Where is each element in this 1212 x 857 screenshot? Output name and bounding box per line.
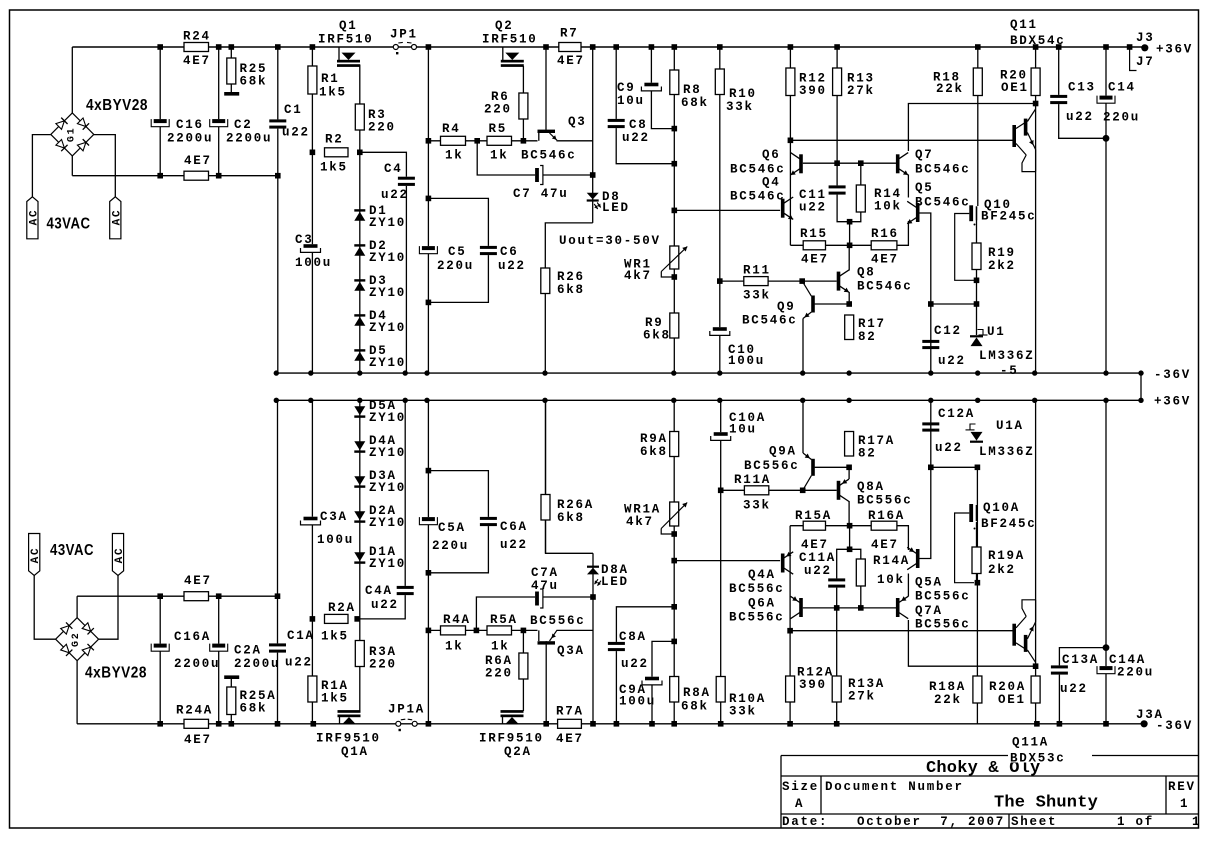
resistor R26	[541, 268, 550, 294]
wire -36V bottom rail	[77, 723, 1144, 725]
node R1A bottom junction	[311, 721, 317, 727]
resistor R25A	[227, 687, 236, 715]
svg-text:22k: 22k	[936, 82, 964, 96]
svg-text:Q8A: Q8A	[857, 480, 885, 494]
node C5A loop junctions	[426, 468, 432, 474]
node Q11 base row start	[788, 138, 794, 144]
svg-text:The Shunty: The Shunty	[994, 794, 1098, 813]
resistor R11A	[744, 486, 768, 495]
resistor R17A 82	[845, 432, 854, 457]
capacitor C4A	[397, 586, 414, 595]
wire C12A column	[930, 400, 932, 467]
svg-text:-5: -5	[1000, 364, 1019, 378]
wire R1-C3 column	[311, 47, 313, 373]
svg-text:1k: 1k	[445, 640, 464, 654]
capacitor C2A	[210, 644, 228, 652]
svg-text:2200u: 2200u	[226, 132, 272, 146]
svg-text:BC546c: BC546c	[857, 280, 913, 294]
resistor R10A	[716, 677, 725, 703]
svg-text:10k: 10k	[874, 200, 902, 214]
svg-text:R4: R4	[442, 122, 461, 136]
wire R14A column	[850, 549, 861, 608]
node C11R14 bottom	[847, 219, 853, 225]
wire Q7 emitter to Q5	[907, 175, 909, 198]
wire C8A column	[616, 607, 674, 724]
wire R19A column	[976, 522, 978, 583]
node R11 junctions	[717, 278, 723, 284]
wire bridge bottom to -rail	[76, 661, 78, 724]
resistor R19 2k2	[972, 243, 981, 270]
svg-text:C2A: C2A	[234, 644, 262, 658]
node R15A R16A junction	[847, 523, 853, 529]
svg-text:R7A: R7A	[556, 705, 584, 719]
svg-text:C8A: C8A	[619, 630, 647, 644]
svg-text:Q3A: Q3A	[557, 644, 585, 658]
svg-text:R26A: R26A	[557, 498, 594, 512]
wire Q9A base to Q8A emitter	[815, 466, 850, 468]
resistor R9A	[670, 432, 679, 457]
node mid rail dots upper	[274, 370, 279, 375]
node top rail junctions left	[157, 44, 163, 50]
wire Q6 base row	[803, 162, 897, 164]
jumper JP1A	[396, 721, 401, 726]
wire R11 row	[720, 280, 802, 282]
svg-text:68k: 68k	[681, 96, 709, 110]
svg-text:Q10A: Q10A	[983, 501, 1020, 515]
svg-text:R15: R15	[800, 227, 828, 241]
wire R20 column	[1035, 47, 1037, 104]
svg-text:220u: 220u	[437, 259, 474, 273]
svg-text:u22: u22	[285, 656, 313, 670]
svg-text:33k: 33k	[729, 705, 757, 719]
svg-text:R24A: R24A	[176, 704, 213, 718]
svg-text:Q1: Q1	[339, 19, 358, 33]
svg-text:Q4: Q4	[762, 176, 781, 190]
svg-text:2200u: 2200u	[167, 132, 213, 146]
svg-text:R16A: R16A	[868, 509, 905, 523]
svg-text:C11A: C11A	[799, 551, 836, 565]
svg-text:Q4A: Q4A	[748, 568, 776, 582]
svg-text:1 of: 1 of	[1117, 815, 1154, 829]
node right columns top	[975, 44, 981, 50]
wire D8 column	[592, 47, 594, 223]
svg-text:100u: 100u	[317, 533, 354, 547]
wire AC1 to bridge	[32, 135, 50, 197]
svg-text:October 7, 2007: October 7, 2007	[857, 815, 1005, 829]
svg-text:JP1: JP1	[390, 28, 418, 42]
svg-text:220u: 220u	[1117, 666, 1154, 680]
svg-text:-36V: -36V	[1156, 719, 1193, 733]
wire R8 column	[673, 47, 675, 373]
svg-text:Q5: Q5	[915, 181, 934, 195]
svg-text:BC546c: BC546c	[915, 163, 971, 177]
diode D4A ZY10	[354, 450, 365, 452]
svg-text:u22: u22	[938, 354, 966, 368]
svg-text:JP1A: JP1A	[388, 703, 425, 717]
svg-text:R19A: R19A	[988, 549, 1025, 563]
svg-text:IRF9510: IRF9510	[479, 732, 544, 746]
wire bottom-left feed rail	[77, 595, 277, 597]
potentiometer WR1 4k7	[670, 246, 679, 269]
connector AC bottom-left	[29, 534, 40, 576]
capacitor C1	[269, 119, 286, 128]
wire Q8A collector riser	[848, 501, 850, 526]
diode D2A ZY10	[354, 520, 365, 522]
wire R13 column	[837, 47, 850, 222]
svg-text:Uout=30-50V: Uout=30-50V	[559, 234, 661, 248]
resistor R15 4E7	[803, 241, 825, 250]
transistor Q3A BC556c	[538, 641, 556, 644]
resistor R5A	[487, 626, 512, 635]
svg-text:u22: u22	[621, 657, 649, 671]
resistor 4E7 bottom top	[184, 592, 209, 601]
wire R4-R5 row	[428, 140, 537, 142]
svg-text:ZY10: ZY10	[369, 446, 406, 460]
svg-text:6k8: 6k8	[557, 511, 585, 525]
wire R26A column	[545, 400, 547, 553]
resistor R12A 390	[786, 676, 795, 702]
svg-text:10u: 10u	[729, 423, 757, 437]
resistor R19A 2k2	[972, 547, 981, 574]
transistor Q5A BC556c	[916, 549, 920, 568]
potentiometer WR1A 4k7	[670, 502, 679, 526]
wire D8A to R26A jog	[546, 400, 594, 553]
wire R6A column	[522, 630, 524, 711]
svg-text:ZY10: ZY10	[369, 321, 406, 335]
jumper JP1	[393, 45, 398, 50]
resistor R4A	[441, 626, 466, 635]
wire bridge top to +rail	[71, 47, 73, 113]
wire R4A-R5A row	[428, 629, 537, 631]
svg-text:C3: C3	[295, 233, 314, 247]
svg-text:R8A: R8A	[683, 686, 711, 700]
wire R13A column	[837, 549, 850, 724]
resistor R3A	[355, 641, 364, 667]
capacitor C8	[608, 119, 625, 128]
wire Q11 column	[1035, 104, 1037, 374]
svg-text:Size: Size	[782, 780, 819, 794]
capacitor C10 100u	[710, 327, 730, 335]
svg-text:u22: u22	[935, 441, 963, 455]
svg-text:4E7: 4E7	[184, 154, 212, 168]
svg-text:68k: 68k	[240, 702, 268, 716]
resistor R5	[487, 136, 512, 145]
wire Q5A emitter up	[897, 526, 909, 550]
svg-text:Document Number: Document Number	[825, 780, 964, 794]
svg-text:1k: 1k	[490, 149, 509, 163]
capacitor C3A	[301, 517, 321, 525]
svg-text:C16: C16	[176, 118, 204, 132]
wire C1A column	[277, 400, 279, 724]
capacitor C12	[922, 340, 939, 349]
connector J7 stub	[1130, 47, 1137, 71]
svg-text:4k7: 4k7	[624, 269, 652, 283]
wire Q7 collector riser	[908, 104, 1035, 152]
resistor R11	[744, 277, 768, 286]
capacitor C9A 100u	[642, 677, 662, 685]
node Q3 collector junction	[543, 44, 549, 50]
transistor Q11 BDX54c	[1012, 125, 1016, 147]
capacitor C7 47u	[535, 166, 543, 185]
svg-text:R2: R2	[325, 133, 344, 147]
svg-text:Date:: Date:	[782, 815, 828, 829]
svg-text:Q2A: Q2A	[504, 745, 532, 759]
svg-text:ZY10: ZY10	[369, 411, 406, 425]
wire C9 column	[651, 47, 674, 129]
svg-text:2k2: 2k2	[988, 259, 1016, 273]
wire R12 column	[789, 47, 791, 245]
svg-text:R4A: R4A	[443, 613, 471, 627]
diode D5A ZY10	[354, 415, 365, 417]
svg-text:C5: C5	[448, 245, 467, 259]
wire Q11A column	[1035, 400, 1037, 666]
node Q6 base junctions	[834, 160, 840, 166]
svg-text:Q9A: Q9A	[769, 445, 797, 459]
wire C6 branch	[428, 198, 488, 302]
capacitor C7A 47u	[535, 589, 543, 608]
svg-text:R11: R11	[743, 264, 771, 278]
node bottom rail junctions left	[157, 721, 163, 727]
diode D8A LED	[587, 568, 599, 575]
resistor R3	[355, 104, 364, 130]
svg-text:ZY10: ZY10	[369, 557, 406, 571]
svg-text:G2: G2	[71, 631, 82, 647]
capacitor C5A	[419, 517, 437, 525]
capacitor C11	[829, 185, 846, 194]
svg-text:-36V: -36V	[1154, 368, 1191, 382]
node C5 loop bottom	[426, 300, 432, 306]
wire C2 column	[218, 47, 220, 176]
transistor Q10 BF245c	[969, 205, 973, 221]
wire Q9 base to Q8 emitter	[815, 303, 850, 305]
resistor R24A	[184, 719, 209, 728]
svg-text:BDX54c: BDX54c	[1010, 34, 1066, 48]
wire Q11 base row	[790, 139, 1012, 141]
svg-text:Q1A: Q1A	[341, 745, 369, 759]
resistor R13A 27k	[832, 676, 841, 702]
svg-text:R5A: R5A	[490, 613, 518, 627]
wire JP1 column	[427, 47, 429, 373]
svg-text:ZY10: ZY10	[369, 481, 406, 495]
svg-text:R14A: R14A	[873, 554, 910, 568]
capacitor C13A	[1051, 665, 1068, 674]
wire C8 column	[616, 47, 674, 164]
wire R14 column	[850, 163, 861, 222]
node JP1 right junction	[426, 44, 432, 50]
resistor R2	[325, 148, 349, 157]
svg-text:390: 390	[799, 678, 827, 692]
svg-text:Q11: Q11	[1010, 18, 1038, 32]
resistor R4	[441, 136, 466, 145]
svg-text:ZY10: ZY10	[369, 216, 406, 230]
svg-text:68k: 68k	[240, 75, 268, 89]
svg-text:BC556c: BC556c	[857, 494, 913, 508]
svg-text:6k8: 6k8	[640, 445, 668, 459]
svg-text:BC546c: BC546c	[521, 149, 577, 163]
svg-text:4E7: 4E7	[183, 54, 211, 68]
connector J3 +36V	[1127, 44, 1133, 50]
diode D4 ZY10	[354, 314, 365, 316]
wire C9A column	[652, 641, 674, 723]
svg-text:A: A	[795, 797, 804, 811]
svg-text:C6A: C6A	[500, 520, 528, 534]
wire top-left return rail	[72, 175, 277, 177]
svg-text:R26: R26	[557, 270, 585, 284]
svg-text:AC: AC	[114, 547, 126, 564]
node right columns bottom	[1034, 721, 1040, 727]
svg-text:1k5: 1k5	[321, 692, 349, 706]
wire R2A to C4A jog	[357, 400, 405, 619]
node bottom rail junctions mid	[614, 721, 620, 727]
svg-text:Q7A: Q7A	[915, 604, 943, 618]
svg-text:Q3: Q3	[568, 115, 587, 129]
bridge rectifier G1	[72, 113, 94, 134]
node Q3A collector junction	[543, 721, 549, 727]
svg-text:100u: 100u	[728, 354, 765, 368]
transistor Q2 IRF510	[502, 47, 504, 61]
svg-text:C5A: C5A	[438, 521, 466, 535]
node R10 top	[717, 44, 723, 50]
svg-text:4E7: 4E7	[801, 538, 829, 552]
svg-text:C12A: C12A	[938, 407, 975, 421]
wire C6A branch	[428, 471, 488, 573]
wire R10A column	[720, 400, 722, 724]
svg-text:4E7: 4E7	[557, 54, 585, 68]
diode D2 ZY10	[354, 244, 365, 246]
transistor Q11A BDX53c	[1012, 624, 1016, 646]
capacitor C6A	[480, 517, 497, 526]
wire R10 column	[719, 47, 721, 373]
svg-text:u22: u22	[1066, 110, 1094, 124]
svg-text:Q8: Q8	[857, 266, 876, 280]
svg-text:1k5: 1k5	[321, 630, 349, 644]
svg-text:+36V: +36V	[1154, 395, 1191, 409]
svg-text:AC: AC	[28, 209, 40, 226]
wire C13A column	[1059, 648, 1106, 724]
svg-text:4E7: 4E7	[871, 253, 899, 267]
svg-text:u22: u22	[622, 131, 650, 145]
transistor Q3 BC546c	[538, 130, 556, 133]
svg-text:C6: C6	[500, 245, 519, 259]
bridge rectifier G2	[77, 618, 99, 640]
transistor Q9 BC546c	[811, 296, 815, 313]
svg-text:27k: 27k	[847, 84, 875, 98]
svg-text:R10: R10	[729, 87, 757, 101]
svg-text:u22: u22	[381, 188, 409, 202]
svg-text:BC556c: BC556c	[915, 618, 971, 632]
svg-text:2200u: 2200u	[174, 657, 220, 671]
transistor Q9A BC556c	[811, 459, 815, 476]
wire JP1A column	[427, 400, 429, 724]
svg-text:u22: u22	[371, 598, 399, 612]
wire AC2 to bridge	[94, 135, 116, 197]
svg-text:ZY10: ZY10	[369, 286, 406, 300]
wire Q11A base row	[790, 630, 1014, 632]
wire C16 column	[159, 47, 161, 176]
capacitor C9 10u	[641, 83, 661, 91]
node R15 R16 junction	[847, 243, 853, 249]
wire R25A column	[230, 678, 232, 724]
wire R15A R16A row	[790, 525, 897, 527]
svg-text:C1: C1	[284, 103, 303, 117]
svg-text:R15A: R15A	[795, 509, 832, 523]
node C11A R14A top	[847, 547, 853, 553]
svg-text:82: 82	[858, 330, 877, 344]
svg-text:OE1: OE1	[998, 693, 1026, 707]
svg-text:33k: 33k	[743, 289, 771, 303]
node feed rail junctions bottom	[157, 593, 163, 599]
svg-text:R9A: R9A	[640, 432, 668, 446]
svg-text:REV: REV	[1168, 780, 1196, 794]
node JP1A right junction	[426, 721, 432, 727]
wire bridge bottom to return rail	[71, 156, 73, 176]
svg-text:C2: C2	[234, 118, 253, 132]
resistor R20A 0E1	[1031, 676, 1040, 703]
wire C11 R14 to R15 junction	[849, 222, 851, 246]
svg-text:R17: R17	[858, 317, 886, 331]
node Q4A base junction	[671, 558, 677, 564]
wire Q7A collector riser	[908, 620, 1033, 666]
transistor Q10A BF245c	[969, 504, 973, 522]
svg-text:U1A: U1A	[996, 419, 1024, 433]
wire R15 R16 row	[790, 244, 897, 246]
svg-text:43VAC: 43VAC	[47, 216, 91, 233]
svg-text:R7: R7	[560, 27, 579, 41]
svg-text:J3: J3	[1136, 31, 1155, 45]
wire R20A column	[1035, 666, 1037, 724]
resistor R8A	[670, 677, 679, 703]
wire Q7A emitter to Q5A	[907, 574, 909, 597]
svg-text:u22: u22	[804, 564, 832, 578]
svg-text:ZY10: ZY10	[369, 251, 406, 265]
wire R8A column	[673, 400, 675, 724]
diode D1 ZY10	[354, 209, 365, 211]
transistor Q6A BC556c	[799, 598, 803, 617]
svg-text:Q6A: Q6A	[748, 597, 776, 611]
capacitor C14 220u	[1097, 96, 1115, 104]
svg-text:1k5: 1k5	[320, 161, 348, 175]
transistor Q7 BC546c	[896, 154, 900, 173]
svg-text:OE1: OE1	[1001, 81, 1029, 95]
resistor R7A	[558, 719, 582, 728]
svg-text:220: 220	[485, 667, 513, 681]
node C13A C14A link dot	[1103, 644, 1110, 651]
transistor Q5 BC546c	[916, 203, 920, 222]
svg-text:R19: R19	[988, 246, 1016, 260]
transistor Q7A BC556c	[896, 598, 900, 617]
wire Q3A collector column	[545, 641, 547, 724]
capacitor C3	[301, 244, 321, 252]
wire C12 column	[930, 304, 932, 373]
node C5 loop top	[426, 196, 432, 202]
svg-text:6k8: 6k8	[557, 283, 585, 297]
svg-text:u22: u22	[799, 201, 827, 215]
node Q6A base junctions	[834, 605, 840, 611]
capacitor C4	[398, 177, 415, 186]
svg-text:C13: C13	[1068, 81, 1096, 95]
wire C7A row	[476, 597, 593, 630]
node Q11A base row start	[787, 628, 793, 634]
svg-text:LM336Z: LM336Z	[979, 349, 1035, 363]
svg-text:BC556c: BC556c	[729, 611, 785, 625]
resistor R2A	[325, 614, 349, 623]
svg-text:u22: u22	[498, 259, 526, 273]
node R20 bottom junction	[1033, 101, 1039, 107]
node Q5A base jog junctions	[928, 465, 934, 471]
resistor R14A 10k	[856, 559, 865, 586]
svg-text:220u: 220u	[432, 539, 469, 553]
svg-text:R8: R8	[683, 83, 702, 97]
